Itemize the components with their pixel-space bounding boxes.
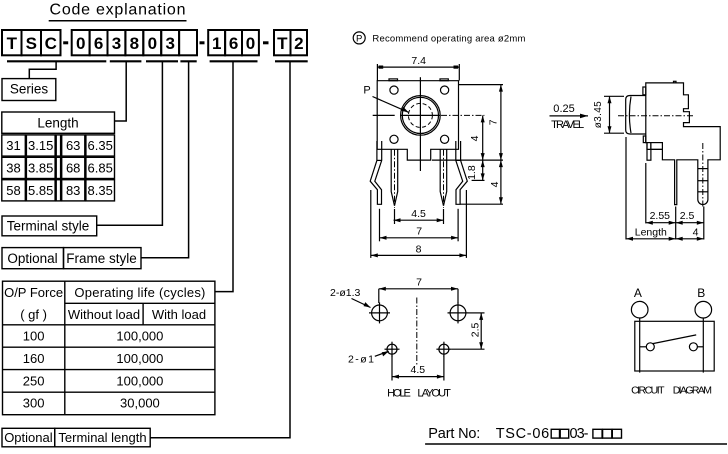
svg-text:Code explanation: Code explanation: [50, 2, 186, 19]
svg-text:C: C: [45, 34, 57, 53]
svg-text:Optional: Optional: [7, 251, 57, 266]
svg-text:Series: Series: [10, 82, 49, 97]
svg-text:2.5: 2.5: [470, 322, 482, 337]
svg-text:58: 58: [6, 183, 20, 198]
svg-text:68: 68: [66, 161, 80, 176]
svg-text:30,000: 30,000: [120, 396, 160, 411]
svg-text:P: P: [356, 34, 362, 45]
svg-text:3: 3: [165, 34, 174, 53]
svg-text:Frame style: Frame style: [66, 251, 137, 266]
svg-text:B: B: [697, 286, 705, 300]
svg-text:7: 7: [488, 119, 500, 125]
svg-text:LAYOUT: LAYOUT: [417, 388, 451, 400]
svg-text:( gf ): ( gf ): [20, 307, 47, 322]
svg-text:Part No:: Part No:: [428, 426, 480, 442]
svg-text:Length: Length: [37, 116, 78, 131]
svg-text:6: 6: [94, 34, 103, 53]
svg-text:31: 31: [6, 138, 20, 153]
svg-text:6.85: 6.85: [88, 161, 113, 176]
svg-text:38: 38: [6, 161, 20, 176]
svg-text:Terminal length: Terminal length: [58, 430, 146, 445]
svg-text:With load: With load: [152, 307, 206, 322]
svg-text:8: 8: [416, 243, 422, 255]
svg-text:4.5: 4.5: [410, 364, 425, 376]
svg-text:T: T: [277, 34, 288, 53]
svg-text:4.5: 4.5: [411, 208, 426, 220]
svg-text:0: 0: [246, 34, 255, 53]
svg-text:2.55: 2.55: [650, 210, 671, 222]
svg-text:0.25: 0.25: [553, 103, 575, 115]
svg-text:7.4: 7.4: [411, 55, 426, 67]
svg-text:4: 4: [469, 135, 481, 141]
svg-text:8.35: 8.35: [88, 183, 113, 198]
svg-text:Recommend operating area ø2: Recommend operating area ø2mm: [372, 34, 525, 45]
svg-text:CIRCUIT: CIRCUIT: [631, 384, 665, 396]
svg-text:TSC-06: TSC-06: [496, 426, 550, 442]
svg-text:3: 3: [112, 34, 121, 53]
svg-text:T: T: [7, 34, 18, 53]
svg-text:0: 0: [76, 34, 85, 53]
svg-text:6.35: 6.35: [88, 138, 113, 153]
svg-text:S: S: [26, 34, 37, 53]
svg-text:1: 1: [212, 34, 221, 53]
svg-text:0: 0: [148, 34, 157, 53]
svg-text:O/P Force: O/P Force: [4, 285, 63, 300]
svg-text:7: 7: [416, 277, 422, 289]
svg-text:63: 63: [66, 138, 80, 153]
svg-text:A: A: [634, 286, 642, 300]
svg-text:2: 2: [294, 34, 303, 53]
svg-text:4: 4: [489, 181, 501, 187]
svg-text:6: 6: [229, 34, 238, 53]
svg-text:TRAVEL: TRAVEL: [551, 119, 584, 131]
svg-text:100: 100: [23, 329, 45, 344]
svg-text:Without load: Without load: [68, 307, 140, 322]
svg-text:DIAGRAM: DIAGRAM: [673, 384, 712, 396]
svg-text:2-ø1: 2-ø1: [348, 354, 374, 366]
svg-text:HOLE: HOLE: [387, 388, 411, 400]
svg-text:83: 83: [66, 183, 80, 198]
svg-text:3.15: 3.15: [28, 138, 53, 153]
svg-text:P: P: [363, 85, 370, 97]
svg-text:100,000: 100,000: [116, 329, 163, 344]
svg-text:2.5: 2.5: [680, 210, 695, 222]
svg-text:Optional: Optional: [4, 430, 53, 445]
svg-text:4: 4: [693, 227, 699, 239]
svg-text:Length: Length: [635, 226, 667, 238]
svg-text:7: 7: [416, 226, 422, 238]
svg-text:Terminal style: Terminal style: [7, 219, 90, 234]
svg-text:03-: 03-: [570, 426, 589, 442]
svg-text:ø3.45: ø3.45: [593, 101, 604, 128]
svg-text:100,000: 100,000: [116, 373, 163, 388]
svg-text:1.8: 1.8: [466, 165, 478, 180]
svg-text:250: 250: [23, 373, 45, 388]
svg-text:5.85: 5.85: [28, 183, 53, 198]
svg-text:300: 300: [23, 396, 45, 411]
svg-text:2-ø1.3: 2-ø1.3: [330, 287, 361, 299]
svg-text:100,000: 100,000: [116, 351, 163, 366]
svg-text:Operating life (cycles): Operating life (cycles): [74, 285, 205, 300]
svg-text:3.85: 3.85: [28, 161, 53, 176]
svg-text:8: 8: [130, 34, 139, 53]
svg-text:160: 160: [23, 351, 45, 366]
